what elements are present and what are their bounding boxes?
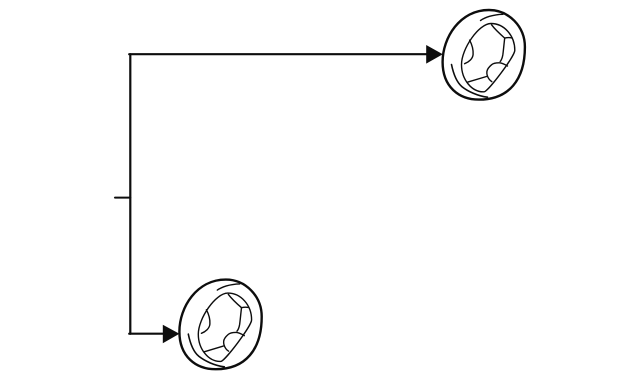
wire: bottom horizontal leader [129, 333, 164, 335]
arrowhead to top wheel cap [426, 45, 443, 64]
arrowhead to bottom wheel cap [163, 325, 180, 344]
wheel cap (lower left) [179, 280, 261, 370]
wire: top horizontal leader [129, 53, 428, 55]
wheel cap (upper right) [443, 10, 525, 100]
wire: vertical leader line [129, 54, 131, 334]
tick mark on leader line [115, 197, 130, 199]
